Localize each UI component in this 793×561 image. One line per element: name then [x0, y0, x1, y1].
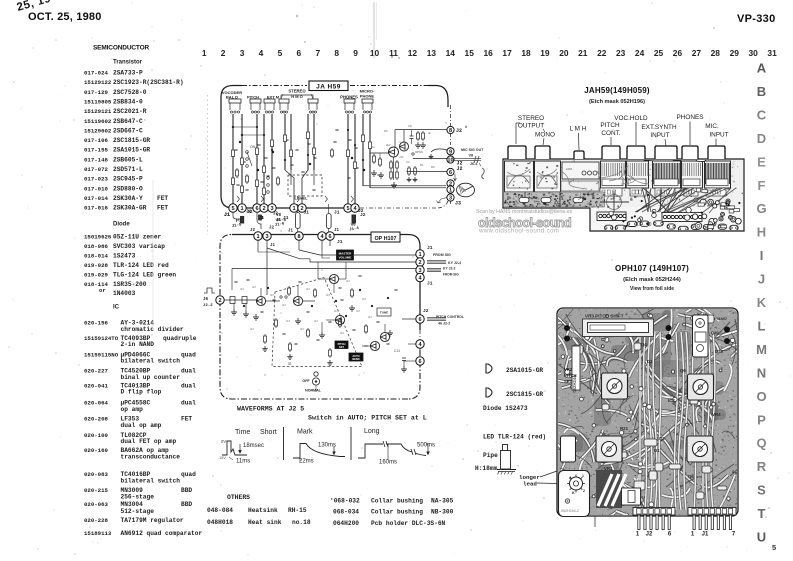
svg-text:2SC945-P: 2SC945-P — [113, 176, 143, 183]
svg-text:15189113: 15189113 — [84, 530, 112, 537]
svg-text:4k7: 4k7 — [250, 327, 255, 331]
svg-text:020-227: 020-227 — [84, 367, 108, 374]
svg-text:2SA1015-GR: 2SA1015-GR — [113, 147, 150, 154]
svg-text:SET: SET — [339, 345, 344, 349]
svg-text:Q6: Q6 — [680, 368, 686, 373]
svg-text:020-041: 020-041 — [84, 382, 108, 389]
svg-text:C7: C7 — [601, 337, 607, 342]
svg-text:Transistor: Transistor — [113, 60, 143, 66]
svg-text:4: 4 — [259, 48, 264, 58]
svg-text:OTHERS: OTHERS — [227, 494, 250, 501]
svg-text:2-in NAND: 2-in NAND — [121, 341, 155, 348]
svg-text:10M: 10M — [566, 167, 572, 171]
svg-text:J3: J3 — [455, 201, 461, 207]
svg-text:51: 51 — [288, 362, 292, 366]
svg-text:22: 22 — [597, 48, 607, 58]
svg-text:J1-6: J1-6 — [275, 222, 286, 228]
svg-text:15129121: 15129121 — [84, 108, 112, 115]
svg-text:017-072: 017-072 — [84, 166, 108, 173]
svg-text:2SB834-0: 2SB834-0 — [113, 98, 143, 105]
svg-text:O: O — [756, 389, 766, 404]
svg-text:4k7: 4k7 — [368, 315, 373, 319]
svg-text:24: 24 — [635, 48, 645, 58]
svg-text:256-stage: 256-stage — [121, 494, 155, 501]
svg-text:dual: dual — [181, 382, 196, 389]
svg-text:bilateral switch: bilateral switch — [121, 478, 181, 485]
svg-text:OCT. 25, 1980: OCT. 25, 1980 — [28, 11, 102, 23]
svg-text:J1: J1 — [304, 210, 310, 216]
svg-text:VR4: VR4 — [712, 412, 721, 417]
svg-text:4k7: 4k7 — [340, 331, 345, 335]
svg-text:(Etch mask 052H196): (Etch mask 052H196) — [589, 99, 645, 105]
svg-text:OUTPUT: OUTPUT — [518, 123, 544, 130]
svg-text:46 J2-2: 46 J2-2 — [438, 322, 450, 326]
svg-text:Scan by HANS montrealstudios@t: Scan by HANS montrealstudios@tlena.es — [476, 209, 572, 215]
svg-text:5: 5 — [231, 206, 234, 212]
svg-text:1: 1 — [691, 532, 695, 538]
svg-text:1S2473: 1S2473 — [113, 253, 136, 260]
svg-text:017-024: 017-024 — [84, 70, 108, 77]
svg-text:Long: Long — [364, 428, 380, 435]
svg-text:6: 6 — [297, 48, 302, 58]
svg-text:J1: J1 — [334, 229, 340, 233]
svg-text:binal up counter: binal up counter — [121, 374, 181, 381]
svg-text:3: 3 — [265, 234, 268, 240]
svg-text:JA H59: JA H59 — [316, 84, 341, 91]
svg-text:1: 1 — [256, 234, 259, 240]
svg-text:6: 6 — [449, 170, 452, 176]
svg-text:15129602: 15129602 — [84, 127, 112, 134]
svg-text:6: 6 — [668, 532, 672, 538]
svg-text:G: G — [756, 201, 766, 216]
svg-text:C8: C8 — [408, 124, 412, 128]
svg-text:M: M — [756, 342, 767, 357]
svg-text:048H018: 048H018 — [207, 519, 233, 526]
svg-text:FET: FET — [181, 416, 192, 423]
svg-text:2SC7528-0: 2SC7528-0 — [113, 89, 147, 96]
svg-text:FET: FET — [157, 205, 168, 212]
svg-text:019-029: 019-029 — [84, 272, 108, 279]
svg-text:14: 14 — [446, 48, 456, 58]
svg-text:4k7: 4k7 — [306, 287, 311, 291]
svg-text:9: 9 — [449, 150, 452, 156]
svg-text:Diode 1S2473: Diode 1S2473 — [483, 405, 528, 412]
svg-text:PHONE: PHONE — [360, 94, 375, 99]
svg-text:D3: D3 — [647, 359, 653, 364]
svg-text:Collar bushing: Collar bushing — [371, 509, 423, 516]
svg-text:2SK30A-Y: 2SK30A-Y — [113, 195, 143, 202]
svg-text:2k2: 2k2 — [386, 143, 391, 147]
svg-text:18: 18 — [521, 48, 531, 58]
svg-text:www.oldschool-sound.com: www.oldschool-sound.com — [478, 228, 559, 235]
svg-text:7: 7 — [315, 48, 320, 58]
svg-text:LEVEL: LEVEL — [295, 196, 308, 201]
svg-text:R: R — [757, 459, 767, 474]
svg-text:160ms: 160ms — [379, 460, 397, 466]
svg-text:017-014: 017-014 — [84, 195, 108, 202]
svg-text:1: 1 — [292, 206, 295, 212]
svg-text:8: 8 — [297, 234, 300, 240]
svg-text:Short: Short — [260, 429, 277, 436]
svg-text:15159124TO: 15159124TO — [84, 335, 119, 342]
svg-text:H: H — [757, 225, 766, 240]
svg-text:4k7: 4k7 — [314, 319, 319, 323]
svg-text:J2: J2 — [358, 208, 364, 214]
svg-text:15119602: 15119602 — [84, 118, 112, 125]
svg-text:IC: IC — [113, 305, 120, 311]
svg-text:2SA733-P: 2SA733-P — [113, 70, 143, 77]
svg-text:15: 15 — [465, 48, 475, 58]
svg-text:J1: J1 — [427, 245, 433, 251]
svg-text:J1: J1 — [270, 244, 276, 248]
svg-text:4k7: 4k7 — [270, 293, 275, 297]
svg-text:11: 11 — [389, 48, 398, 58]
svg-text:6: 6 — [328, 234, 331, 240]
svg-text:OPH107 (149H107): OPH107 (149H107) — [615, 264, 689, 273]
svg-text:5: 5 — [772, 543, 776, 552]
svg-text:J2: J2 — [457, 166, 463, 172]
svg-text:Heat sink: Heat sink — [248, 519, 282, 526]
svg-text:J2-2: J2-2 — [203, 304, 213, 308]
svg-text:4k7: 4k7 — [362, 297, 367, 301]
svg-text:AN6912 quad comparator: AN6912 quad comparator — [121, 530, 203, 537]
svg-text:4k7: 4k7 — [334, 309, 339, 313]
svg-text:K: K — [757, 295, 767, 310]
svg-text:4k7: 4k7 — [300, 327, 305, 331]
svg-text:T: T — [758, 506, 766, 521]
svg-text:020-064: 020-064 — [84, 399, 108, 406]
svg-text:4k7: 4k7 — [252, 285, 257, 289]
svg-text:Q2: Q2 — [659, 436, 665, 441]
svg-text:4k7: 4k7 — [346, 279, 351, 283]
svg-text:PITCH: PITCH — [600, 122, 620, 129]
svg-text:017-010: 017-010 — [84, 185, 108, 192]
svg-text:J2: J2 — [456, 128, 462, 134]
svg-text:C: C — [757, 107, 767, 122]
svg-text:2SB647-C: 2SB647-C — [113, 118, 143, 125]
svg-text:dual: dual — [181, 367, 196, 374]
svg-text:13: 13 — [427, 48, 437, 58]
svg-text:017-106: 017-106 — [84, 137, 108, 144]
svg-text:500ms: 500ms — [417, 443, 435, 449]
svg-text:PITCH CONTROL: PITCH CONTROL — [436, 315, 464, 319]
svg-text:020-083: 020-083 — [84, 471, 108, 478]
svg-text:BEND: BEND — [352, 357, 359, 361]
svg-text:J1: J1 — [427, 281, 433, 287]
svg-text:J1: J1 — [283, 215, 289, 221]
svg-text:VOC.HOLD: VOC.HOLD — [614, 115, 648, 122]
svg-text:FET: FET — [157, 195, 168, 202]
svg-text:020-100: 020-100 — [84, 432, 108, 439]
svg-text:18msec: 18msec — [243, 443, 264, 449]
svg-text:MIC SIG OUT: MIC SIG OUT — [461, 148, 484, 152]
svg-text:Q4: Q4 — [641, 342, 647, 347]
svg-text:INPUT: INPUT — [709, 132, 728, 139]
svg-text:1: 1 — [202, 48, 207, 58]
svg-text:2: 2 — [221, 48, 226, 58]
svg-text:PITCH: PITCH — [564, 373, 577, 378]
svg-text:8: 8 — [334, 48, 339, 58]
svg-text:1N4003: 1N4003 — [113, 290, 136, 297]
svg-text:6: 6 — [255, 206, 258, 212]
svg-text:D1: D1 — [654, 448, 660, 453]
svg-text:5: 5 — [278, 48, 283, 58]
svg-text:47k: 47k — [399, 155, 404, 159]
svg-text:017-129: 017-129 — [84, 89, 108, 96]
svg-text:VR3 PITCH SHIFT: VR3 PITCH SHIFT — [585, 314, 624, 319]
svg-text:R21: R21 — [620, 426, 629, 431]
svg-text:V8: V8 — [469, 154, 474, 158]
svg-text:512-stage: 512-stage — [121, 508, 155, 515]
svg-text:MN3004: MN3004 — [121, 501, 144, 508]
svg-text:VP-330: VP-330 — [737, 13, 776, 25]
svg-text:N: N — [757, 365, 766, 380]
svg-text:RH-15: RH-15 — [288, 507, 307, 514]
svg-text:7: 7 — [732, 532, 736, 538]
svg-text:4k7: 4k7 — [286, 319, 291, 323]
svg-text:Switch in AUTO; PITCH SET at: Switch in AUTO; PITCH SET at L — [308, 415, 427, 422]
svg-text:D flip flop: D flip flop — [121, 389, 162, 396]
svg-text:TLR-124 LED red: TLR-124 LED red — [113, 262, 169, 269]
svg-text:dual FET op amp: dual FET op amp — [121, 438, 177, 445]
svg-text:F: F — [758, 178, 766, 193]
svg-text:2: 2 — [218, 298, 221, 304]
svg-text:VR2: VR2 — [564, 367, 573, 372]
svg-text:048-084: 048-084 — [207, 507, 233, 514]
svg-text:2SA1015-GR: 2SA1015-GR — [506, 367, 543, 374]
svg-text:020-063: 020-063 — [84, 501, 108, 508]
svg-text:'068-032: '068-032 — [330, 498, 360, 505]
svg-text:NA-305: NA-305 — [431, 498, 454, 505]
svg-text:2SD880-O: 2SD880-O — [113, 185, 143, 192]
svg-text:2SD667: 2SD667 — [693, 368, 705, 372]
svg-text:017-155: 017-155 — [84, 147, 108, 154]
svg-text:16: 16 — [483, 48, 493, 58]
svg-text:#: # — [465, 126, 467, 130]
svg-text:R6: R6 — [384, 129, 388, 133]
svg-text:21: 21 — [578, 48, 588, 58]
svg-text:26: 26 — [673, 48, 683, 58]
svg-text:JAH59(149H059): JAH59(149H059) — [584, 86, 650, 95]
svg-text:2SD667-C: 2SD667-C — [113, 127, 143, 134]
svg-text:OPNS: OPNS — [415, 150, 423, 154]
svg-text:020-160: 020-160 — [84, 447, 108, 454]
svg-text:15119805: 15119805 — [84, 98, 112, 105]
svg-text:19: 19 — [540, 48, 550, 58]
svg-text:CONT.: CONT. — [601, 130, 620, 137]
svg-text:NB-300: NB-300 — [431, 509, 454, 516]
svg-text:OP H107: OP H107 — [374, 236, 396, 242]
svg-text:IC2: IC2 — [668, 398, 675, 403]
svg-text:23: 23 — [616, 48, 626, 58]
svg-text:020-208: 020-208 — [84, 416, 108, 423]
svg-text:EXT.SYNTH: EXT.SYNTH — [641, 124, 677, 131]
svg-text:3: 3 — [240, 48, 245, 58]
svg-text:8: 8 — [449, 128, 452, 134]
svg-text:25: 25 — [654, 48, 664, 58]
svg-text:(Elch mask 052H244): (Elch mask 052H244) — [623, 277, 681, 283]
svg-text:quad: quad — [181, 471, 196, 478]
svg-text:WAVEFORMS AT J2 5: WAVEFORMS AT J2 5 — [237, 406, 304, 413]
svg-text:C4: C4 — [406, 160, 410, 164]
svg-text:KY J2-2: KY J2-2 — [443, 267, 455, 271]
svg-text:Diode: Diode — [113, 222, 130, 228]
svg-text:17: 17 — [502, 48, 512, 58]
svg-text:J: J — [758, 272, 765, 287]
svg-text:S: S — [757, 483, 766, 498]
svg-text:MONO: MONO — [535, 132, 555, 139]
svg-text:J2: J2 — [246, 209, 252, 215]
svg-text:1SR35-200: 1SR35-200 — [113, 281, 147, 288]
svg-text:transconductance: transconductance — [121, 454, 181, 461]
svg-text:017-016: 017-016 — [84, 205, 108, 212]
svg-text:2SC2021-R: 2SC2021-R — [113, 108, 147, 115]
svg-text:018-086: 018-086 — [84, 243, 108, 250]
svg-text:OFF: OFF — [302, 379, 310, 383]
svg-text:052H244-2: 052H244-2 — [561, 509, 579, 513]
svg-text:NORMAL: NORMAL — [305, 389, 322, 393]
svg-text:22ms: 22ms — [299, 459, 314, 465]
svg-text:29: 29 — [730, 48, 740, 58]
svg-text:J2: J2 — [273, 213, 279, 217]
svg-text:05Z-11U zener: 05Z-11U zener — [113, 234, 162, 241]
svg-text:4k: 4k — [428, 131, 432, 135]
svg-text:STEREO: STEREO — [288, 89, 306, 94]
svg-text:J1: J1 — [702, 532, 709, 538]
svg-text:11ms: 11ms — [236, 459, 250, 465]
svg-text:15129122: 15129122 — [84, 79, 112, 86]
svg-text:068-034: 068-034 — [333, 509, 359, 516]
svg-text:4k7: 4k7 — [240, 287, 245, 291]
svg-text:LED TLR-124 (red): LED TLR-124 (red) — [483, 434, 546, 441]
svg-text:Q5: Q5 — [688, 474, 694, 479]
svg-text:KY J2-4: KY J2-4 — [448, 261, 461, 265]
svg-text:130ms: 130ms — [318, 443, 336, 449]
svg-text:MIC.: MIC. — [705, 123, 719, 130]
svg-text:quad: quad — [181, 351, 196, 358]
svg-text:dual op amp: dual op amp — [121, 422, 162, 429]
svg-text:or: or — [99, 287, 106, 294]
svg-text:15019626: 15019626 — [84, 234, 112, 241]
svg-text:Mark: Mark — [297, 429, 313, 436]
svg-text:20: 20 — [559, 48, 569, 58]
svg-text:J1: J1 — [224, 212, 230, 218]
svg-text:4k7: 4k7 — [326, 293, 331, 297]
svg-text:6: 6 — [418, 359, 421, 365]
svg-text:4k7: 4k7 — [356, 309, 361, 313]
svg-text:28: 28 — [711, 48, 721, 58]
svg-text:3: 3 — [449, 196, 452, 202]
svg-text:TLG-124 LED green: TLG-124 LED green — [113, 272, 176, 279]
svg-text:2SK30A-GR: 2SK30A-GR — [113, 205, 147, 212]
svg-text:SVC303 varicap: SVC303 varicap — [113, 243, 165, 250]
svg-text:quadruple: quadruple — [163, 335, 197, 342]
svg-text:chromatic divider: chromatic divider — [121, 326, 184, 333]
svg-text:J6-4: J6-4 — [470, 162, 477, 166]
svg-text:J2: J2 — [646, 532, 653, 538]
svg-text:E: E — [757, 154, 766, 169]
svg-text:020-228: 020-228 — [84, 517, 108, 524]
svg-text:PIANO: PIANO — [714, 316, 727, 321]
svg-text:op amp: op amp — [121, 406, 144, 413]
svg-text:R9: R9 — [431, 165, 435, 169]
svg-text:2SC1923-R(2SC381-R): 2SC1923-R(2SC381-R) — [113, 79, 184, 86]
svg-text:Q20: Q20 — [715, 349, 724, 354]
svg-text:Heatsink: Heatsink — [248, 507, 278, 514]
svg-text:Collar bushing: Collar bushing — [371, 498, 423, 505]
svg-text:B: B — [757, 84, 766, 99]
svg-text:L M H: L M H — [570, 126, 587, 133]
svg-text:ON: ON — [250, 145, 256, 149]
svg-text:Q: Q — [756, 436, 766, 451]
svg-text:U: U — [757, 530, 766, 545]
svg-text:1: 1 — [636, 532, 640, 538]
svg-text:J1: J1 — [288, 230, 294, 234]
svg-text:no.18: no.18 — [292, 519, 311, 526]
svg-text:J1: J1 — [259, 217, 265, 221]
svg-text:PHONES: PHONES — [677, 114, 704, 121]
svg-text:J1-4: J1-4 — [349, 227, 360, 233]
svg-text:31: 31 — [767, 48, 777, 58]
svg-text:VR1: VR1 — [604, 466, 613, 471]
svg-text:-15V: -15V — [218, 456, 226, 460]
svg-text:J6: J6 — [203, 298, 209, 302]
svg-text:SET: SET — [564, 379, 573, 384]
svg-text:9: 9 — [353, 48, 358, 58]
svg-text:STEREO: STEREO — [518, 115, 544, 122]
svg-text:10k: 10k — [377, 173, 382, 177]
svg-text:2: 2 — [583, 489, 585, 493]
svg-text:Pipe: Pipe — [483, 452, 498, 459]
svg-text:J2: J2 — [423, 308, 429, 314]
svg-text:Pcb holder DLC-3S-6N: Pcb holder DLC-3S-6N — [371, 520, 446, 527]
svg-text:J2: J2 — [269, 227, 275, 231]
svg-text:017-146: 017-146 — [84, 156, 108, 163]
svg-text:BBD: BBD — [181, 487, 192, 494]
svg-text:FROM SIG: FROM SIG — [443, 273, 459, 277]
svg-text:Q29: Q29 — [711, 330, 719, 335]
svg-text:019-028: 019-028 — [84, 262, 108, 269]
svg-text:J1: J1 — [337, 239, 343, 245]
svg-text:1: 1 — [449, 188, 452, 194]
svg-text:FROM SIG: FROM SIG — [433, 253, 451, 257]
svg-text:15159115NO: 15159115NO — [84, 351, 119, 358]
svg-text:1u: 1u — [372, 145, 376, 149]
svg-text:J1-5: J1-5 — [232, 223, 243, 229]
svg-text:2: 2 — [262, 206, 265, 212]
svg-text:2SC1815-GR: 2SC1815-GR — [506, 391, 543, 398]
svg-text:2SC1815-GR: 2SC1815-GR — [113, 137, 150, 144]
svg-text:020-215: 020-215 — [84, 487, 108, 494]
svg-text:Time: Time — [235, 429, 250, 436]
svg-text:3: 3 — [270, 206, 273, 212]
svg-text:1: 1 — [582, 474, 584, 478]
svg-text:L: L — [758, 318, 766, 333]
svg-text:SEMICONDUCTOR: SEMICONDUCTOR — [93, 45, 150, 52]
svg-text:064H200: 064H200 — [333, 520, 359, 527]
svg-text:4k7: 4k7 — [282, 303, 287, 307]
svg-text:INPUT: INPUT — [650, 132, 669, 139]
svg-text:A: A — [569, 476, 572, 480]
svg-text:27: 27 — [692, 48, 702, 58]
svg-text:BBD: BBD — [181, 501, 192, 508]
svg-text:10: 10 — [447, 158, 453, 164]
svg-text:TA7179M regulator: TA7179M regulator — [121, 517, 184, 524]
svg-text:018-014: 018-014 — [84, 253, 108, 260]
svg-text:P: P — [757, 412, 766, 427]
svg-text:View from foil side: View from foil side — [630, 286, 674, 292]
svg-text:R1: R1 — [420, 163, 424, 167]
